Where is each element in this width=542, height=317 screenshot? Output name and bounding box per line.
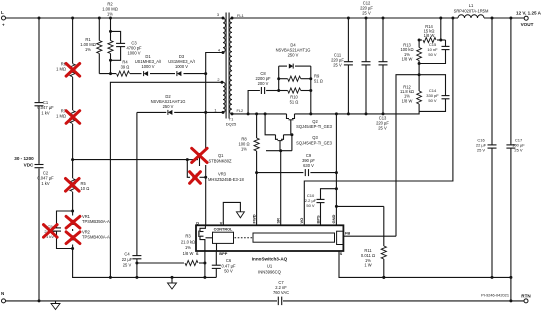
wire snubber node A — [266, 66, 280, 92]
capacitor C8 — [255, 71, 271, 94]
transformer primary winding lower — [214, 48, 225, 113]
resistor R2 — [97, 2, 118, 54]
svg-text:3: 3 — [217, 12, 219, 17]
capacitor C17 — [506, 18, 525, 277]
svg-text:39 Ω: 39 Ω — [121, 65, 130, 70]
capacitor C10 — [305, 189, 337, 226]
ground primary — [168, 277, 177, 289]
svg-text:250 V: 250 V — [288, 53, 299, 58]
wire Q3 drain — [265, 114, 275, 135]
svg-text:VOUT: VOUT — [521, 22, 534, 27]
wire Q3 source — [284, 133, 294, 150]
svg-text:FL2: FL2 — [237, 108, 244, 113]
svg-text:BPS: BPS — [315, 215, 320, 224]
resistor R4 — [117, 60, 130, 77]
pin label SR — [276, 218, 281, 224]
svg-text:1000 V: 1000 V — [175, 64, 188, 69]
svg-text:INN3996CQ: INN3996CQ — [258, 270, 282, 275]
capacitor C6 — [212, 258, 236, 274]
svg-text:25 V: 25 V — [514, 147, 523, 152]
svg-text:1 MΩ: 1 MΩ — [56, 114, 66, 119]
svg-text:C4: C4 — [124, 252, 130, 257]
IC name — [252, 257, 288, 275]
capacitor C5 — [44, 211, 72, 249]
wire mid rail — [232, 111, 419, 115]
wire bottom rail — [6, 299, 525, 302]
wire GND-R11 line — [336, 205, 383, 207]
transformer primary winding upper — [217, 12, 226, 52]
IC U1 box — [196, 225, 343, 251]
diode D1 — [135, 54, 162, 76]
pin label IS — [339, 251, 343, 256]
wire bias column — [135, 112, 138, 279]
svg-text:1 kV: 1 kV — [41, 110, 49, 115]
label input voltage — [14, 156, 34, 168]
svg-text:50 V: 50 V — [428, 98, 437, 103]
svg-text:SRP4020TA-1R5M: SRP4020TA-1R5M — [454, 8, 489, 13]
svg-text:Q3: Q3 — [312, 135, 318, 140]
svg-text:DQ25: DQ25 — [226, 122, 237, 127]
IC FB box — [337, 231, 344, 244]
diode D2 — [151, 94, 186, 115]
svg-text:S: S — [196, 251, 199, 256]
wire pin1 bias line — [137, 111, 225, 114]
resistor R11 — [361, 206, 386, 279]
resistor R6 — [56, 62, 75, 77]
svg-text:630 V: 630 V — [303, 163, 314, 168]
svg-text:1%: 1% — [107, 12, 113, 17]
wire snubber left — [248, 91, 260, 114]
X VR2 — [66, 232, 80, 244]
zener VR2 — [69, 230, 110, 241]
svg-text:1%: 1% — [85, 47, 91, 52]
ground input — [51, 301, 60, 310]
svg-text:25 V: 25 V — [362, 11, 371, 16]
svg-text:1: 1 — [214, 107, 216, 112]
X R7 — [66, 111, 80, 124]
resistor R14 — [419, 18, 445, 43]
svg-text:25 V: 25 V — [477, 147, 486, 152]
IC secondary box — [253, 233, 335, 242]
capacitor C11 — [331, 18, 353, 114]
svg-text:V: V — [220, 220, 223, 225]
wire S pin — [203, 251, 206, 277]
capacitor C3 — [111, 31, 143, 60]
svg-text:50 V: 50 V — [224, 269, 233, 274]
svg-text:SQJ454EP-TI_GE3: SQJ454EP-TI_GE3 — [296, 124, 332, 129]
svg-text:25 V: 25 V — [378, 126, 387, 131]
wire clamp bottom — [99, 72, 205, 75]
svg-text:FB: FB — [345, 231, 350, 236]
pin label GND — [331, 215, 336, 224]
svg-text:U1: U1 — [267, 264, 273, 269]
IC internal mosfet — [199, 225, 213, 251]
X R6 — [66, 64, 80, 77]
svg-text:760 VAC: 760 VAC — [273, 290, 289, 295]
svg-text:SR: SR — [276, 218, 281, 224]
svg-text:25 V: 25 V — [123, 263, 132, 268]
wire GND column — [335, 114, 338, 225]
svg-text:30 - 1200: 30 - 1200 — [14, 156, 34, 161]
capacitor C13 — [376, 18, 389, 131]
capacitor C14 — [419, 75, 449, 112]
X C5 — [44, 225, 58, 238]
terminal L — [1, 10, 6, 28]
zener VR1 — [69, 214, 110, 225]
wire drain vertical — [204, 74, 207, 226]
wire input cap column — [38, 18, 40, 301]
capacitor C9 — [257, 153, 337, 176]
svg-text:InnoSwitch3-AQ: InnoSwitch3-AQ — [252, 257, 288, 262]
pin label S — [196, 251, 199, 256]
terminal N — [1, 291, 6, 303]
X VR1 — [66, 216, 80, 228]
capacitor C12 — [360, 1, 373, 114]
svg-text:Q1: Q1 — [218, 153, 224, 158]
resistor R7 — [56, 109, 75, 124]
wire IS pin — [339, 251, 512, 279]
svg-text:VO: VO — [299, 218, 304, 224]
transistor Q3 — [276, 135, 333, 146]
pin label BPS — [315, 215, 320, 224]
pin label BPP — [219, 251, 227, 256]
svg-text:L: L — [1, 10, 4, 15]
svg-text:BPP: BPP — [219, 251, 227, 256]
svg-text:1 kV: 1 kV — [41, 181, 49, 186]
label FL1 — [237, 13, 244, 18]
terminal VOUT 12V — [516, 11, 542, 28]
resistor R9 — [279, 74, 323, 84]
wire R6 column — [71, 18, 110, 277]
svg-text:10 Ω: 10 Ω — [81, 186, 90, 191]
pin label V — [220, 220, 223, 225]
svg-text:SQJ454EP-TI_GE3: SQJ454EP-TI_GE3 — [296, 140, 332, 145]
wire FB line — [343, 73, 420, 236]
svg-text:TPSMB350A-A: TPSMB350A-A — [82, 219, 110, 224]
resistor R1 — [80, 37, 113, 54]
capacitor C2 — [35, 165, 55, 186]
wire top rail secondary — [232, 17, 524, 20]
wire snubber right — [309, 66, 312, 114]
svg-text:1 W: 1 W — [364, 263, 371, 268]
svg-text:N: N — [1, 291, 4, 296]
IC control box — [213, 228, 234, 251]
svg-text:1/8 W: 1/8 W — [424, 33, 435, 38]
label PI number — [481, 293, 509, 298]
svg-text:VR3: VR3 — [218, 171, 227, 176]
svg-text:1%: 1% — [241, 147, 247, 152]
svg-text:1/8 W: 1/8 W — [183, 251, 194, 256]
diode D3 — [168, 54, 195, 76]
pin label D — [196, 220, 199, 225]
svg-text:VDC: VDC — [24, 163, 34, 168]
capacitor C1 — [35, 100, 55, 115]
svg-text:MHSZ5245B-E3-18: MHSZ5245B-E3-18 — [208, 177, 244, 182]
label T1 — [226, 117, 237, 127]
capacitor C16 — [476, 18, 497, 277]
svg-text:50 V: 50 V — [306, 203, 315, 208]
zener VR3 — [190, 171, 245, 183]
svg-text:0.47 µF: 0.47 µF — [222, 263, 236, 268]
wire clamp R1C3 column — [109, 18, 112, 74]
pin label VO — [299, 218, 304, 224]
wire clamp R2 column — [98, 18, 100, 74]
resistor R3 — [137, 234, 205, 266]
V pin arrow — [223, 202, 244, 225]
pin label FB — [345, 231, 350, 236]
svg-text:25 V: 25 V — [333, 63, 342, 68]
svg-text:2: 2 — [217, 77, 219, 82]
svg-text:51 Ω: 51 Ω — [290, 100, 299, 105]
transformer T1 core — [226, 13, 229, 119]
svg-text:250 V: 250 V — [163, 104, 174, 109]
svg-text:CONTROL: CONTROL — [214, 228, 233, 232]
resistor R5 — [70, 179, 89, 192]
wire VO sense — [304, 18, 453, 225]
svg-text:L1: L1 — [469, 3, 474, 8]
wire gate line — [73, 158, 206, 177]
svg-text:RTN: RTN — [521, 294, 531, 299]
terminal RTN — [521, 294, 531, 303]
capacitor C7 — [273, 280, 289, 305]
svg-text:1 MΩ: 1 MΩ — [56, 67, 66, 72]
svg-text:FL1: FL1 — [237, 13, 244, 18]
svg-text:1000 V: 1000 V — [142, 64, 155, 69]
wire RTN drop — [510, 277, 512, 301]
capacitor C4 — [122, 252, 142, 268]
transistor Q1 — [187, 148, 232, 166]
inductor L1 — [454, 3, 489, 18]
resistor R8 — [238, 114, 259, 225]
svg-text:GND: GND — [331, 215, 336, 224]
svg-text:21.0 kΩ: 21.0 kΩ — [181, 239, 195, 244]
wire primary bus — [110, 276, 216, 279]
svg-text:R3: R3 — [185, 234, 191, 239]
wire top rail primary — [6, 17, 224, 20]
svg-text:51 Ω: 51 Ω — [314, 79, 323, 84]
svg-text:D: D — [196, 220, 199, 225]
label FL2 — [237, 108, 244, 113]
svg-text:STB9NK80Z: STB9NK80Z — [209, 159, 232, 164]
svg-text:1000 V: 1000 V — [128, 51, 141, 56]
capacitor C15 — [419, 40, 449, 64]
svg-text:1%: 1% — [185, 245, 191, 250]
resistor R13 — [400, 39, 421, 75]
svg-text:200 V: 200 V — [258, 81, 269, 86]
svg-text:PI-9246-042021: PI-9246-042021 — [481, 293, 509, 298]
diode D4 — [276, 43, 311, 69]
wire SR gate line — [266, 123, 292, 226]
svg-text:50 V: 50 V — [428, 52, 437, 57]
transistor Q2 — [287, 114, 333, 129]
svg-text:1/8 W: 1/8 W — [402, 57, 413, 62]
transformer secondary winding — [230, 17, 234, 116]
svg-text:+: + — [2, 23, 5, 28]
svg-text:C6: C6 — [226, 258, 232, 263]
resistor R12 — [400, 75, 421, 112]
wire BPP C6 — [215, 251, 217, 277]
svg-text:FWD: FWD — [251, 214, 256, 223]
IC dashed link — [235, 237, 253, 239]
svg-text:TPSMB400A-A: TPSMB400A-A — [82, 235, 110, 240]
svg-text:1/8 W: 1/8 W — [402, 98, 413, 103]
pin label FWD — [251, 214, 256, 223]
resistor R10 — [279, 88, 311, 105]
svg-text:22 µF: 22 µF — [122, 257, 133, 262]
wire pin4 link — [204, 51, 224, 75]
svg-text:12 V, 1.25 A: 12 V, 1.25 A — [516, 11, 542, 16]
X R5 — [66, 179, 80, 192]
wire pin2 return — [109, 81, 224, 279]
